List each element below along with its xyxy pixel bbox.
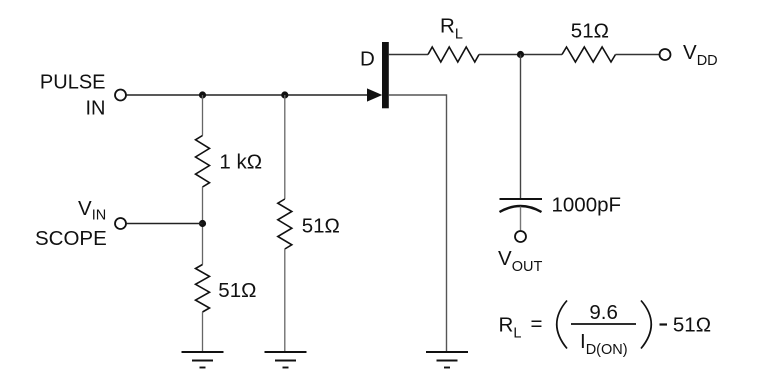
wire gate row	[127, 94, 370, 96]
wire to VDD terminal	[616, 54, 660, 56]
ground (source branch)	[426, 352, 468, 368]
wire source (to ground)	[389, 95, 447, 351]
svg-text:IN: IN	[86, 98, 106, 120]
svg-text:51Ω: 51Ω	[673, 314, 711, 337]
resistor R1 1k	[196, 136, 210, 188]
svg-text:PULSE: PULSE	[40, 72, 106, 94]
terminal PULSE IN	[115, 90, 126, 101]
capacitor C1 curved plate	[500, 206, 542, 212]
node junction J3	[517, 51, 524, 58]
right parenthesis	[641, 301, 651, 349]
svg-text:1000pF: 1000pF	[552, 194, 622, 217]
svg-text:51Ω: 51Ω	[571, 20, 609, 43]
wire branch1 upper	[202, 95, 204, 136]
resistor R3 51ohm	[278, 199, 292, 249]
node junction scope	[199, 220, 206, 227]
formula RL = (9.6 / ID(ON)) - 51ohm	[499, 301, 712, 359]
ground (branch1)	[182, 352, 224, 368]
resistor R2 51ohm	[196, 265, 210, 313]
wire node J3 to capacitor	[520, 55, 522, 199]
svg-text:SCOPE: SCOPE	[35, 227, 107, 250]
terminal VOUT	[515, 231, 526, 242]
wire branch1 lower	[202, 312, 204, 351]
svg-text:51Ω: 51Ω	[302, 215, 340, 238]
wire branch1 middle	[202, 187, 204, 265]
svg-text:D: D	[360, 48, 375, 71]
transistor Q1 (DUT channel bar)	[382, 42, 389, 108]
wire scope	[127, 223, 203, 225]
resistor RL	[428, 47, 479, 62]
capacitor C1 top plate	[500, 198, 543, 200]
svg-text:9.6: 9.6	[589, 301, 618, 324]
node junction J1	[199, 91, 206, 98]
wire branch2 lower	[284, 249, 286, 351]
svg-text:1 kΩ: 1 kΩ	[219, 151, 262, 174]
wire branch2 upper	[284, 95, 286, 199]
node junction J2	[281, 91, 288, 98]
wire drain	[389, 54, 428, 56]
svg-text:=: =	[531, 313, 543, 336]
resistor 51ohm (VDD)	[562, 47, 616, 62]
wire capacitor to VOUT	[520, 207, 522, 232]
terminal VDD	[660, 49, 671, 60]
terminal VIN/SCOPE	[115, 218, 126, 229]
wire RL to node	[479, 54, 562, 56]
transistor Q1 gate arrow	[367, 88, 382, 101]
fraction bar	[571, 323, 636, 325]
svg-text:51Ω: 51Ω	[218, 279, 256, 302]
ground (branch2)	[265, 352, 307, 368]
left parenthesis	[557, 301, 567, 349]
